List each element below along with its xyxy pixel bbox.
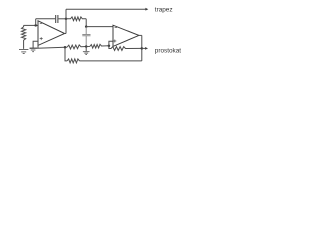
arrowhead prostokat: [145, 47, 148, 50]
op-amp U2: [113, 25, 139, 46]
ground G1: [19, 50, 28, 54]
wire output riser: [65, 9, 67, 33]
node N7: [141, 47, 144, 50]
wire trapez output: [66, 8, 146, 10]
wire T1 corner to rail: [37, 45, 39, 48]
wire cap to node N2: [58, 18, 66, 20]
node N3: [85, 25, 88, 28]
wire prostokat output: [142, 47, 146, 49]
resistor R4: [86, 44, 109, 48]
resistor R6: [67, 59, 80, 63]
op-amp U1 minus label: [40, 22, 42, 24]
resistor R3: [67, 45, 86, 49]
op-amp U2 plus label: [113, 40, 116, 43]
wire input to U1 inverting: [24, 24, 38, 26]
bottom rail wire left: [30, 47, 67, 48]
op-amp U1: [38, 21, 65, 46]
ground G3: [85, 47, 87, 52]
resistor R5: [109, 46, 142, 51]
resistor R1 (input, vertical): [22, 25, 26, 49]
wire U1 noninverting to ground: [33, 41, 38, 48]
wire feedback riser left: [35, 19, 37, 26]
resistor R2 (feedback): [66, 17, 86, 21]
wire U2 output stub: [139, 34, 142, 36]
wire U1 output stub: [64, 33, 66, 35]
wire N3 to U2 inverting: [86, 26, 113, 28]
capacitor C2 (grey): [82, 27, 90, 46]
node N1: [34, 24, 37, 27]
arrowhead trapez: [145, 8, 148, 11]
ground G2: [30, 47, 37, 49]
svg-text:prostokat: prostokat: [155, 47, 182, 54]
svg-text:trapez: trapez: [155, 6, 173, 13]
capacitor C1: [56, 15, 58, 23]
wire detour down from N4: [65, 47, 67, 61]
op-amp U2 minus label: [115, 27, 117, 29]
wire output drop: [141, 35, 143, 61]
node N2: [65, 18, 68, 21]
node N4: [64, 46, 67, 49]
wire feedback top left: [36, 18, 56, 20]
wire R2 down to node N3: [85, 19, 87, 27]
op-amp U1 plus label: [40, 37, 43, 40]
node N6: [108, 45, 111, 48]
node N5: [85, 45, 88, 48]
wire N6 to U2 noninverting: [109, 41, 113, 46]
wire detour bottom: [80, 60, 142, 62]
